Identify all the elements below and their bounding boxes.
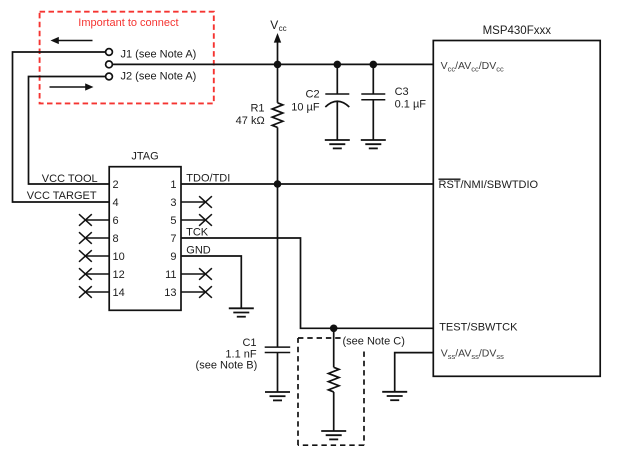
svg-text:12: 12: [113, 269, 125, 281]
svg-text:7: 7: [170, 233, 176, 245]
pin 4 number: [113, 197, 119, 209]
svg-text:R1: R1: [250, 103, 264, 115]
no-connect X on pin 3: [199, 196, 212, 208]
no-connect X on pin 14: [79, 286, 92, 298]
junction dot TEST wire / optional pulldown: [330, 325, 338, 333]
svg-text:4: 4: [113, 197, 119, 209]
label TDO/TDI: [186, 172, 230, 184]
pin 12 stub wire: [85, 273, 109, 275]
svg-text:5: 5: [170, 215, 176, 227]
svg-text:Important to connect: Important to connect: [78, 17, 178, 29]
no-connect X on pin 11: [199, 268, 212, 280]
label 47 kOhm: [236, 115, 265, 127]
capacitor C2 (polarized): [325, 64, 349, 140]
svg-text:GND: GND: [186, 245, 211, 257]
arrow pointing right (direction marker): [50, 83, 94, 90]
pin 6 number: [113, 215, 119, 227]
annotation box (red dashed) "Important to connect": [40, 12, 214, 104]
wire J1 to JTAG pin 4 (VCC TARGET): [13, 52, 110, 202]
label MSP430Fxxx: [483, 25, 552, 37]
label GND: [186, 245, 211, 257]
pin label RST/NMI/SBWTDIO (RST overline): [439, 179, 539, 191]
pin 1 number: [170, 179, 176, 191]
label "J1 (see Note A)": [121, 48, 197, 60]
pin label TEST/SBWTCK: [439, 322, 518, 334]
svg-text:10: 10: [113, 251, 125, 263]
label "J2 (see Note A)": [121, 70, 197, 82]
svg-text:3: 3: [170, 197, 176, 209]
svg-text:cc: cc: [279, 24, 287, 33]
no-connect X on pin 8: [79, 232, 92, 244]
no-connect X on pin 5: [199, 214, 212, 226]
pin 5 stub wire: [181, 219, 206, 221]
svg-text:C3: C3: [395, 86, 409, 98]
pin 6 stub wire: [85, 219, 109, 221]
wire R1 bottom to C1 top (through RST node): [277, 127, 279, 347]
junction dot Vcc rail / C3: [370, 61, 378, 69]
ground below C2: [325, 140, 350, 148]
pin 13 number: [164, 287, 176, 299]
svg-text:Vcc/AVcc/DVcc: Vcc/AVcc/DVcc: [441, 60, 504, 74]
jumper J1 (open circle): [106, 49, 113, 56]
pin 11 stub wire: [181, 273, 206, 275]
pin 3 stub wire: [181, 201, 206, 203]
jumper J2 (open circle): [106, 73, 113, 80]
wire J2 to JTAG pin 2 (VCC TOOL): [29, 77, 110, 185]
resistor R1: [272, 103, 283, 128]
label (see Note B): [196, 360, 258, 372]
svg-text:(see Note B): (see Note B): [196, 360, 258, 372]
svg-text:J2 (see Note A): J2 (see Note A): [121, 70, 197, 82]
label 10 uF: [291, 101, 320, 113]
svg-text:VCC TOOL: VCC TOOL: [42, 173, 98, 185]
ground below C1: [265, 392, 290, 400]
svg-text:0.1 µF: 0.1 µF: [395, 98, 427, 110]
label JTAG: [131, 150, 158, 162]
pin 11 number: [165, 269, 176, 281]
pin 9 number: [170, 251, 176, 263]
svg-text:VCC TARGET: VCC TARGET: [27, 190, 97, 202]
ground below pulldown resistor: [321, 431, 346, 439]
wire TCK (pin 7) to MSP430 TEST pin: [181, 238, 433, 328]
pin 14 stub wire: [85, 291, 109, 293]
wire Vcc rail (tap to MSP430 Vcc pin): [112, 63, 433, 65]
ground below C3: [361, 140, 386, 148]
wire GND (pin 9) to ground: [181, 256, 241, 308]
wire TEST node to pulldown resistor: [333, 328, 335, 367]
label 0.1 uF: [395, 98, 427, 110]
label C1: [242, 337, 256, 349]
pin 8 stub wire: [85, 237, 109, 239]
svg-text:C1: C1: [242, 337, 256, 349]
wire MSP430 Vss pin to ground: [395, 353, 434, 392]
pin 8 number: [113, 233, 119, 245]
no-connect X on pin 12: [79, 268, 92, 280]
pin 5 number: [170, 215, 176, 227]
pin 12 number: [113, 269, 125, 281]
label VCC TOOL: [42, 173, 98, 185]
IC MSP430Fxxx box: [433, 41, 600, 377]
svg-text:1: 1: [170, 179, 176, 191]
svg-text:(see Note C): (see Note C): [343, 336, 405, 348]
svg-text:TEST/SBWTCK: TEST/SBWTCK: [439, 322, 518, 334]
arrow pointing left (direction marker): [51, 37, 93, 44]
svg-text:11: 11: [165, 269, 176, 281]
label (see Note C): [343, 336, 405, 348]
label VCC TARGET: [27, 190, 97, 202]
power symbol Vcc (arrow up): [274, 33, 281, 64]
svg-text:MSP430Fxxx: MSP430Fxxx: [483, 25, 552, 37]
optional-circuit box (black dashed, see Note C): [298, 338, 364, 445]
label TCK: [186, 227, 209, 239]
svg-text:2: 2: [113, 179, 119, 191]
label 1.1 nF: [225, 348, 256, 360]
capacitor C3: [361, 64, 385, 140]
wire TDO/TDI (pin 1) to MSP430 RST pin: [181, 183, 433, 185]
pin label Vss/AVss/DVss: [441, 348, 504, 362]
svg-text:TCK: TCK: [186, 227, 209, 239]
svg-text:RST/NMI/SBWTDIO: RST/NMI/SBWTDIO: [439, 179, 539, 191]
junction dot RST wire / R1-C1 wire: [274, 180, 282, 188]
pin 7 number: [170, 233, 176, 245]
no-connect X on pin 6: [79, 214, 92, 226]
svg-text:14: 14: [113, 287, 125, 299]
no-connect X on pin 10: [79, 250, 92, 262]
ground below Vss pin: [382, 392, 407, 400]
svg-text:V: V: [270, 18, 278, 32]
wire Vcc rail to R1 top: [277, 64, 279, 102]
label C2: [306, 89, 320, 101]
svg-text:1.1 nF: 1.1 nF: [225, 348, 256, 360]
pin 3 number: [170, 197, 176, 209]
node Vcc tap (open circle between J1 and J2): [106, 61, 113, 68]
label "Important to connect": [78, 17, 178, 29]
svg-text:J1 (see Note A): J1 (see Note A): [121, 48, 197, 60]
pin 10 stub wire: [85, 255, 109, 257]
wire pulldown resistor to ground: [333, 392, 335, 431]
no-connect X on pin 13: [199, 286, 212, 298]
label R1: [250, 103, 264, 115]
capacitor C1: [265, 347, 291, 392]
label C3: [395, 86, 409, 98]
svg-text:9: 9: [170, 251, 176, 263]
svg-text:47 kΩ: 47 kΩ: [236, 115, 265, 127]
svg-text:TDO/TDI: TDO/TDI: [186, 172, 230, 184]
label Vcc: [270, 18, 286, 33]
resistor optional pulldown: [328, 367, 339, 392]
connector JTAG box: [109, 167, 181, 311]
svg-text:8: 8: [113, 233, 119, 245]
ground below JTAG pin 9: [229, 308, 254, 316]
junction dot Vcc rail / R1: [274, 61, 282, 69]
svg-text:C2: C2: [306, 89, 320, 101]
pin 10 number: [113, 251, 125, 263]
pin 2 number: [113, 179, 119, 191]
svg-text:JTAG: JTAG: [131, 150, 158, 162]
pin label Vcc/AVcc/DVcc: [441, 60, 504, 74]
pin 13 stub wire: [181, 291, 206, 293]
svg-text:10 µF: 10 µF: [291, 101, 320, 113]
svg-text:13: 13: [164, 287, 176, 299]
pin 14 number: [113, 287, 125, 299]
svg-text:6: 6: [113, 215, 119, 227]
junction dot Vcc rail / C2: [334, 61, 342, 69]
svg-text:Vss/AVss/DVss: Vss/AVss/DVss: [441, 348, 504, 362]
